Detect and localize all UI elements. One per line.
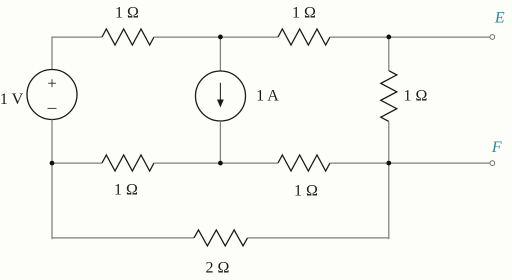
terminal E open circle (490, 35, 495, 40)
resistor 1Ω middle-right zigzag (278, 155, 330, 171)
voltage source plus sign (48, 79, 56, 87)
wire right vertical to bottom (387, 163, 390, 238)
svg-text:2 Ω: 2 Ω (206, 260, 230, 277)
svg-text:1 Ω: 1 Ω (114, 182, 138, 199)
wire middle-center horizontal (154, 162, 278, 164)
resistor 1Ω top-left zigzag (102, 29, 154, 45)
svg-text:1 Ω: 1 Ω (404, 88, 428, 105)
wire right vertical upper (388, 37, 390, 71)
wire top-right horizontal to terminal E (330, 36, 490, 38)
junction node top-center (218, 35, 223, 40)
terminal F open circle (490, 161, 495, 166)
junction node middle-left (50, 161, 55, 166)
current source arrow shaft (219, 83, 221, 101)
wire current-source branch lower (219, 121, 221, 163)
svg-text:1 A: 1 A (256, 88, 279, 105)
wire bottom horizontal left segment (52, 237, 194, 239)
svg-text:E: E (494, 10, 505, 27)
wire left vertical to bottom (51, 163, 54, 238)
wire top-middle horizontal (154, 36, 278, 38)
wire top-left horizontal (52, 36, 102, 38)
resistor 2Ω bottom zigzag (194, 230, 248, 246)
junction node middle-center (218, 161, 223, 166)
junction node middle-right (386, 161, 391, 166)
current source I1 circle (196, 71, 246, 121)
wire bottom horizontal right segment (248, 237, 389, 239)
wire left vertical lower (51, 120, 53, 164)
wire middle-left horizontal (52, 162, 102, 164)
svg-text:1 V: 1 V (0, 91, 24, 108)
svg-text:1 Ω: 1 Ω (294, 182, 318, 199)
resistor 1Ω top-right zigzag (278, 29, 330, 45)
wire current-source branch upper (219, 37, 221, 71)
wire left vertical upper (51, 37, 53, 70)
svg-text:1 Ω: 1 Ω (292, 5, 316, 22)
wire middle-right horizontal to terminal F (330, 162, 490, 164)
current source arrowhead (217, 100, 224, 108)
voltage source minus sign (48, 107, 57, 109)
svg-text:1 Ω: 1 Ω (115, 5, 139, 22)
voltage source V1 circle (27, 70, 77, 120)
svg-text:F: F (491, 139, 502, 156)
resistor 1Ω middle-left zigzag (102, 155, 154, 171)
wire right vertical lower (388, 121, 390, 163)
resistor 1Ω right vertical zigzag (381, 71, 397, 122)
junction node top-right (386, 35, 391, 40)
